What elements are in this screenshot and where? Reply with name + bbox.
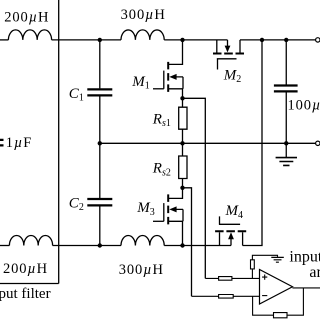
capacitor Cf 1uF plates (clipped at left edge) <box>0 140 4 146</box>
svg-text:200µH: 200µH <box>3 261 48 277</box>
resistor Rg to ground <box>251 255 278 278</box>
resistor Rin- <box>192 295 260 299</box>
node dot M3 drain <box>180 186 184 190</box>
transistor M4 <box>215 216 246 245</box>
wire bottom rail mid <box>53 245 121 247</box>
node dot top M4 branch <box>260 38 264 42</box>
resistor Rin+ <box>205 277 259 281</box>
wire node A to sense <box>183 98 206 278</box>
wire mid ground rail <box>100 142 316 144</box>
transistor M3 <box>153 188 183 246</box>
svg-text:1µF: 1µF <box>6 135 32 151</box>
op-amp minus sign <box>262 295 267 297</box>
op-amp U1 <box>260 270 293 305</box>
wire M4 right to top rail <box>243 40 262 246</box>
capacitor Cout 100uF <box>285 40 287 85</box>
wire top rail M2 right to terminal <box>240 39 316 41</box>
wire bottom rail to M4 <box>164 245 231 247</box>
svg-text:put filter: put filter <box>0 286 51 302</box>
inductor L2 300uH top <box>121 30 164 40</box>
wire C column top <box>99 40 101 89</box>
capacitor C2 <box>87 199 112 205</box>
input filter box <box>0 0 59 284</box>
wire M3 drain node to sense <box>183 188 192 296</box>
terminal circle top right <box>316 38 320 42</box>
inductor L1 200uH top <box>8 30 51 40</box>
wire top rail to 300uH <box>52 39 121 41</box>
ground main <box>276 143 297 165</box>
svg-text:300µH: 300µH <box>119 262 164 278</box>
svg-text:amplifier: amplifier <box>309 264 320 281</box>
op-amp plus sign <box>262 275 267 280</box>
node dot top 100uF branch <box>284 38 288 42</box>
resistor Rfb feedback <box>253 288 304 318</box>
op-amp output wire <box>293 287 320 289</box>
node dot mid Rs <box>180 141 184 145</box>
svg-text:200µH: 200µH <box>4 9 49 25</box>
node dot top M1 drain <box>180 38 184 42</box>
node dot bottom C column <box>98 243 102 247</box>
wire top rail left <box>0 39 8 41</box>
node dot mid ground <box>284 141 288 145</box>
wire top rail to M2 <box>164 39 227 41</box>
svg-text:input: input <box>289 248 320 265</box>
ground small at op-amp <box>271 257 284 262</box>
capacitor C1 <box>87 89 112 95</box>
transistor M2 <box>213 40 244 70</box>
transistor M1 <box>153 40 183 98</box>
node dot mid C column <box>98 141 102 145</box>
wire C column middle <box>99 96 101 198</box>
inductor L4 300uH bottom <box>121 236 164 246</box>
resistor Rs1 <box>179 98 187 143</box>
node dot bottom M3 source <box>180 243 184 247</box>
wire C column bottom <box>99 206 101 245</box>
node dot top C column <box>98 38 102 42</box>
resistor Rs2 <box>179 143 187 188</box>
inductor L3 200uH bottom <box>9 236 52 246</box>
wire bottom rail left <box>0 245 9 247</box>
terminal circle mid right <box>316 141 320 145</box>
node dot A M1 source <box>180 96 184 100</box>
svg-text:100µF: 100µF <box>288 97 320 113</box>
svg-text:300µH: 300µH <box>121 7 166 23</box>
